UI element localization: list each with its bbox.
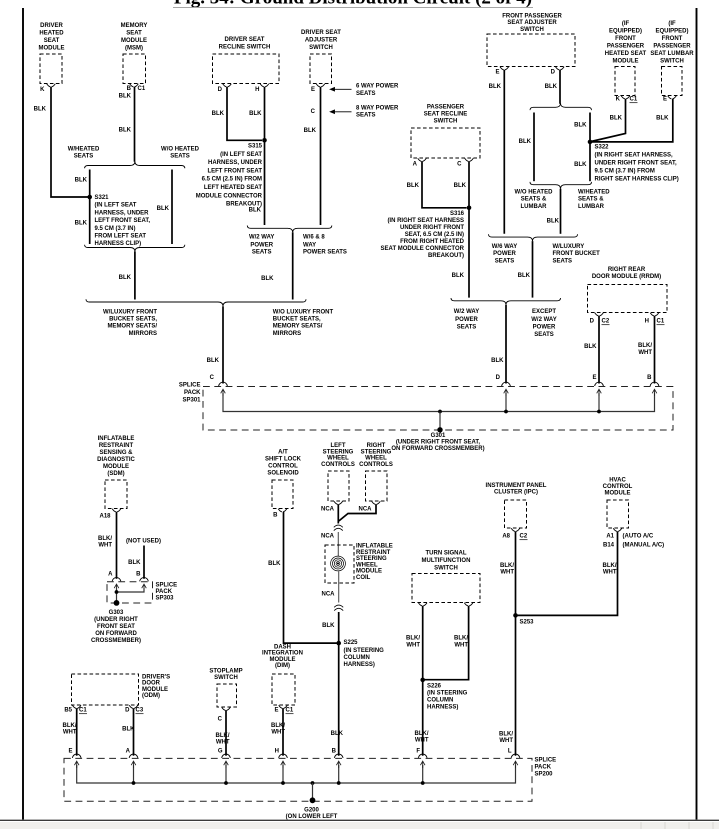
svg-text:SP301: SP301 bbox=[182, 398, 201, 404]
connector RRDM right bbox=[650, 313, 659, 316]
junction on bus at E bbox=[597, 410, 601, 414]
inline connector above coil bbox=[334, 525, 343, 531]
svg-text:E: E bbox=[274, 708, 278, 714]
svg-text:(ON LOWER LEFT: (ON LOWER LEFT bbox=[286, 814, 338, 820]
svg-text:MODULE: MODULE bbox=[39, 46, 65, 52]
SP200 arrow E bbox=[74, 761, 79, 768]
SP200 arrow L bbox=[513, 761, 518, 768]
junction on bus at A bbox=[132, 781, 136, 785]
svg-text:S315: S315 bbox=[248, 144, 263, 150]
svg-text:W/LUXURY FRONT: W/LUXURY FRONT bbox=[103, 310, 157, 316]
svg-text:C1: C1 bbox=[657, 319, 665, 325]
wire: W/HEATED branch through S322 bbox=[589, 113, 591, 182]
svg-text:BLK/: BLK/ bbox=[98, 536, 112, 542]
svg-text:MULTIFUNCTION: MULTIFUNCTION bbox=[422, 558, 471, 564]
svg-text:MODULE: MODULE bbox=[356, 569, 382, 575]
label W/6 WAY POWER SEATS bbox=[492, 244, 517, 264]
svg-text:BLK: BLK bbox=[574, 123, 587, 129]
svg-text:SEAT LUMBAR: SEAT LUMBAR bbox=[650, 51, 694, 57]
svg-text:SP303: SP303 bbox=[156, 595, 175, 601]
svg-text:WHT: WHT bbox=[454, 643, 468, 649]
label S316 note bbox=[381, 211, 465, 259]
wire: passenger merged to SP301 pin D (BLK) bbox=[505, 305, 507, 384]
svg-text:RIGHT REAR: RIGHT REAR bbox=[608, 267, 646, 273]
svg-text:MODULE: MODULE bbox=[270, 657, 296, 663]
svg-text:HARNESS, UNDER: HARNESS, UNDER bbox=[208, 160, 263, 166]
brace merge B7 (closing) bbox=[489, 234, 578, 241]
svg-text:BLK: BLK bbox=[454, 183, 467, 189]
svg-text:BLK/: BLK/ bbox=[415, 731, 429, 737]
svg-text:INFLATABLE: INFLATABLE bbox=[356, 544, 393, 550]
SP200 arrow F bbox=[420, 761, 425, 768]
wire: pass recline C through S316 to brace (BLK) bbox=[468, 161, 470, 297]
svg-text:E: E bbox=[68, 749, 72, 755]
svg-text:C1: C1 bbox=[630, 97, 638, 103]
svg-text:WHT: WHT bbox=[500, 570, 514, 576]
svg-text:E: E bbox=[495, 70, 499, 76]
svg-text:MODULE: MODULE bbox=[103, 464, 129, 470]
brace merge B6 (closing) bbox=[530, 182, 592, 189]
label G200 note bbox=[286, 808, 338, 821]
module: INFLATABLE RESTRAINT STEERING WHEEL MODULE COIL box bbox=[325, 545, 354, 583]
module: HVAC CONTROL MODULE label bbox=[603, 478, 633, 497]
splice pack SP301 box bbox=[203, 387, 673, 431]
svg-text:W/HEATED: W/HEATED bbox=[578, 190, 610, 196]
svg-text:SEATS: SEATS bbox=[170, 154, 190, 160]
svg-text:SEAT ADJUSTER: SEAT ADJUSTER bbox=[507, 20, 557, 26]
svg-text:H: H bbox=[275, 749, 279, 755]
wire: turn signal right to S226 (BLK/WHT) bbox=[425, 606, 469, 680]
svg-text:(MSM): (MSM) bbox=[125, 46, 143, 52]
svg-text:RESTRAINT: RESTRAINT bbox=[356, 550, 391, 556]
svg-text:WHEEL: WHEEL bbox=[365, 456, 387, 462]
svg-text:MEMORY SEATS/: MEMORY SEATS/ bbox=[273, 324, 323, 330]
module: TURN SIGNAL MULTIFUNCTION SWITCH label bbox=[422, 551, 471, 572]
svg-text:WHEEL: WHEEL bbox=[327, 456, 349, 462]
wire: heated-lumbar merged (BLK) bbox=[560, 189, 562, 234]
svg-text:DOOR MODULE (RRDM): DOOR MODULE (RRDM) bbox=[592, 274, 661, 280]
svg-text:NCA: NCA bbox=[321, 507, 335, 513]
svg-text:(SDM): (SDM) bbox=[107, 471, 124, 477]
SP303 internal bus bbox=[117, 588, 145, 592]
svg-text:(UNDER RIGHT FRONT SEAT,: (UNDER RIGHT FRONT SEAT, bbox=[396, 440, 481, 446]
svg-text:WHT: WHT bbox=[406, 643, 420, 649]
label BLK/WHT bbox=[638, 343, 652, 356]
label S322 note bbox=[595, 145, 679, 183]
connector at SP200 pin E bbox=[72, 754, 81, 758]
svg-text:FRONT SEAT: FRONT SEAT bbox=[97, 624, 135, 630]
svg-text:EQUIPPED): EQUIPPED) bbox=[655, 29, 688, 35]
label W/6 and 8 WAY POWER SEATS bbox=[303, 235, 347, 256]
connector pin H bbox=[260, 84, 269, 87]
SP303 internal drop bbox=[116, 588, 118, 603]
svg-text:WHT: WHT bbox=[499, 738, 513, 744]
svg-text:A1: A1 bbox=[606, 534, 614, 540]
label W/HEATED SEATS bbox=[68, 147, 100, 160]
brace merge B3 (closing) bbox=[247, 226, 331, 233]
module: TURN SIGNAL MULTIFUNCTION SWITCH box bbox=[412, 574, 480, 603]
svg-text:INFLATABLE: INFLATABLE bbox=[98, 436, 135, 442]
svg-text:FRONT: FRONT bbox=[662, 36, 683, 42]
svg-text:B: B bbox=[127, 86, 132, 92]
svg-text:D: D bbox=[590, 319, 595, 325]
svg-text:BLK/: BLK/ bbox=[271, 723, 285, 729]
svg-text:LUMBAR: LUMBAR bbox=[521, 204, 548, 210]
svg-text:WAY: WAY bbox=[303, 242, 316, 248]
svg-text:WHT: WHT bbox=[638, 350, 652, 356]
junction S225 bbox=[336, 641, 341, 646]
svg-text:BUCKET SEATS,: BUCKET SEATS, bbox=[109, 317, 157, 323]
svg-text:L: L bbox=[508, 749, 512, 755]
svg-text:(NOT USED): (NOT USED) bbox=[126, 539, 161, 545]
svg-text:SEATS: SEATS bbox=[553, 258, 573, 264]
module: DRIVER HEATED SEAT MODULE box bbox=[40, 54, 62, 84]
svg-text:BLK/: BLK/ bbox=[216, 733, 230, 739]
svg-text:BLK: BLK bbox=[518, 273, 531, 279]
bottom gray status bar bbox=[0, 822, 719, 829]
annotation arrow 8 WAY bbox=[330, 110, 351, 113]
connector pin E bbox=[500, 67, 509, 70]
svg-text:9.5 CM (3.7 IN): 9.5 CM (3.7 IN) bbox=[95, 226, 136, 232]
module: LEFT STEERING WHEEL CONTROLS box bbox=[328, 471, 349, 501]
SP303 arrow A bbox=[114, 584, 119, 591]
svg-text:WHEEL: WHEEL bbox=[356, 562, 378, 568]
connector at SDM bbox=[112, 509, 121, 512]
svg-text:SENSING &: SENSING & bbox=[99, 450, 133, 456]
coil symbol (concentric rings) bbox=[331, 556, 346, 571]
module: A/T SHIFT LOCK box bbox=[272, 480, 293, 509]
svg-text:SEATS: SEATS bbox=[356, 112, 376, 118]
svg-text:WHT: WHT bbox=[603, 570, 617, 576]
connector at right controls bbox=[372, 501, 381, 504]
svg-text:FRONT: FRONT bbox=[615, 36, 636, 42]
svg-text:COIL: COIL bbox=[356, 575, 371, 581]
svg-text:G301: G301 bbox=[431, 433, 446, 439]
svg-text:W/HEATED: W/HEATED bbox=[68, 147, 100, 153]
wire: G301 tap bbox=[439, 412, 441, 430]
svg-text:(IF: (IF bbox=[622, 21, 630, 27]
svg-text:INSTRUMENT PANEL: INSTRUMENT PANEL bbox=[486, 483, 547, 489]
svg-text:WHT: WHT bbox=[415, 737, 429, 743]
svg-text:D: D bbox=[551, 70, 556, 76]
wire: right controls NCA joining bbox=[339, 504, 376, 521]
wire: heated seat module to S322 (BLK) bbox=[591, 99, 626, 142]
svg-text:S253: S253 bbox=[520, 620, 535, 626]
svg-text:H: H bbox=[255, 87, 259, 93]
svg-text:ON FORWARD: ON FORWARD bbox=[95, 631, 137, 637]
module: DRIVER HEATED SEAT MODULE label bbox=[39, 23, 65, 52]
svg-text:MODULE: MODULE bbox=[605, 491, 631, 497]
wire: RRDM D to SP301 pin E (BLK) bbox=[598, 316, 600, 384]
wire: recline D to S315 (BLK) bbox=[227, 87, 262, 141]
module: DRIVER SEAT ADJUSTER SWITCH box bbox=[310, 54, 332, 84]
svg-text:HARNESS, UNDER: HARNESS, UNDER bbox=[95, 210, 150, 216]
svg-text:SEAT: SEAT bbox=[126, 31, 142, 37]
wire: W/O HEATED branch bbox=[171, 170, 173, 245]
ground G301 dot bbox=[437, 427, 442, 432]
svg-text:EQUIPPED): EQUIPPED) bbox=[609, 29, 642, 35]
svg-text:SWITCH: SWITCH bbox=[434, 566, 458, 572]
label 6 WAY POWER SEATS bbox=[356, 84, 399, 97]
junction S226 bbox=[420, 678, 425, 683]
svg-text:A/T: A/T bbox=[278, 450, 288, 456]
connector at SP200 pin G bbox=[222, 754, 231, 758]
svg-text:(IN LEFT SEAT: (IN LEFT SEAT bbox=[95, 203, 137, 209]
svg-text:BLK: BLK bbox=[407, 183, 420, 189]
connector at DIM bbox=[279, 705, 288, 708]
svg-text:POWER: POWER bbox=[493, 251, 516, 257]
svg-text:BLK: BLK bbox=[249, 111, 262, 117]
svg-text:BLK: BLK bbox=[584, 344, 597, 350]
module: INSTRUMENT PANEL CLUSTER label bbox=[486, 483, 547, 495]
svg-text:(DIM): (DIM) bbox=[275, 663, 290, 669]
SP303 arrow B bbox=[142, 584, 147, 591]
wire: W/O HEATED branch bbox=[533, 113, 535, 182]
svg-text:SPLICE: SPLICE bbox=[535, 758, 557, 764]
inline connector below coil bbox=[334, 605, 343, 611]
svg-text:(IN STEERING: (IN STEERING bbox=[344, 648, 385, 654]
wire: adjuster E to brace B7 (BLK) bbox=[503, 70, 505, 234]
svg-text:BLK: BLK bbox=[268, 561, 281, 567]
svg-text:WHT: WHT bbox=[63, 730, 77, 736]
svg-text:C: C bbox=[457, 162, 462, 168]
svg-text:G303: G303 bbox=[109, 610, 124, 616]
wire: W/HEATED branch bbox=[89, 170, 91, 245]
wire: SDM A18 to SP303 pin A (BLK/WHT) bbox=[116, 512, 118, 579]
svg-text:POWER SEATS: POWER SEATS bbox=[303, 250, 347, 256]
svg-text:D: D bbox=[496, 375, 501, 381]
junction G200 tap on bus bbox=[311, 781, 315, 785]
brace merge B4 (closing, left group) bbox=[86, 299, 306, 306]
svg-text:FRONT PASSENGER: FRONT PASSENGER bbox=[502, 13, 562, 19]
svg-text:BLK: BLK bbox=[75, 178, 88, 184]
label 8 WAY POWER SEATS bbox=[356, 105, 399, 118]
SP200 riser A bbox=[133, 765, 135, 783]
svg-text:SPLICE: SPLICE bbox=[156, 582, 178, 588]
label S226 note bbox=[427, 683, 468, 710]
wire: NCA to coil (thin) bbox=[337, 532, 339, 557]
svg-text:CLUSTER (IPC): CLUSTER (IPC) bbox=[494, 489, 538, 495]
svg-text:SEATS &: SEATS & bbox=[521, 197, 547, 203]
SP200 arrow G bbox=[224, 761, 229, 768]
svg-text:S225: S225 bbox=[344, 640, 359, 646]
bottom rule bbox=[0, 819, 719, 821]
svg-text:BLK: BLK bbox=[491, 358, 504, 364]
svg-text:UNDER RIGHT FRONT SEAT,: UNDER RIGHT FRONT SEAT, bbox=[595, 161, 678, 167]
module: PASSENGER SEAT RECLINE SWITCH box bbox=[411, 128, 480, 158]
svg-text:K: K bbox=[40, 87, 45, 93]
svg-text:FROM RIGHT HEATED: FROM RIGHT HEATED bbox=[400, 239, 465, 245]
module: INSTRUMENT PANEL CLUSTER box bbox=[505, 500, 527, 528]
svg-text:POWER: POWER bbox=[455, 317, 478, 323]
SP200 arrow B bbox=[336, 761, 341, 768]
SP301 arrow B bbox=[652, 389, 657, 396]
wire: G200 tap bbox=[312, 783, 314, 800]
svg-text:W/O LUXURY FRONT: W/O LUXURY FRONT bbox=[273, 310, 334, 316]
svg-text:FRONT BUCKET: FRONT BUCKET bbox=[553, 251, 601, 257]
svg-text:B: B bbox=[647, 375, 652, 381]
wire: recline H through S315 to brace (BLK) bbox=[264, 87, 266, 225]
svg-text:A: A bbox=[126, 749, 131, 755]
junction G301 tap on bus bbox=[438, 410, 442, 414]
svg-text:DRIVER'S: DRIVER'S bbox=[142, 675, 170, 681]
module: IF EQUIPPED FRONT PASSENGER SEAT LUMBAR SWITCH box bbox=[662, 67, 683, 96]
svg-text:9.5 CM (3.7 IN) FROM: 9.5 CM (3.7 IN) FROM bbox=[595, 169, 655, 175]
svg-text:BLK: BLK bbox=[519, 139, 532, 145]
svg-text:HARNESS CLIP): HARNESS CLIP) bbox=[95, 241, 142, 247]
wire: adjuster E to brace (BLK) bbox=[320, 87, 322, 225]
junction inside SP303 bbox=[115, 590, 119, 594]
label BLK/WHT bbox=[500, 563, 514, 576]
module: DRIVER SEAT RECLINE SWITCH box bbox=[213, 54, 280, 84]
SP301 arrow D bbox=[504, 389, 509, 396]
label S225 note bbox=[344, 640, 385, 668]
svg-text:BLK/: BLK/ bbox=[63, 723, 77, 729]
svg-text:INTEGRATION: INTEGRATION bbox=[262, 651, 303, 657]
junction S316 bbox=[467, 206, 472, 211]
connector at left controls bbox=[334, 501, 343, 504]
junction S253 bbox=[513, 613, 518, 618]
svg-text:W/O HEATED: W/O HEATED bbox=[161, 147, 200, 153]
label W/LUXURY FRONT BUCKET SEATS MEMORY SEATS/MIRRORS bbox=[103, 310, 157, 337]
SP301 riser D bbox=[505, 393, 507, 412]
wire: turn signal left through S226 to SP200 pin F (BLK/WHT) bbox=[422, 606, 424, 756]
svg-text:SWITCH: SWITCH bbox=[309, 45, 333, 51]
svg-text:SWITCH: SWITCH bbox=[660, 59, 684, 65]
SP301 internal bus bbox=[223, 393, 655, 412]
svg-text:ON FORWARD CROSSMEMBER): ON FORWARD CROSSMEMBER) bbox=[391, 446, 484, 452]
svg-text:BLK: BLK bbox=[452, 273, 465, 279]
svg-text:BLK: BLK bbox=[322, 623, 335, 629]
wire: MSM to brace (BLK) bbox=[134, 87, 136, 162]
label S321 note bbox=[95, 195, 151, 247]
svg-text:SPLICE: SPLICE bbox=[179, 383, 201, 389]
svg-text:STEERING: STEERING bbox=[356, 556, 387, 562]
svg-text:PASSENGER: PASSENGER bbox=[427, 105, 465, 111]
module: PASSENGER SEAT RECLINE SWITCH label bbox=[424, 105, 468, 125]
svg-text:BLK/: BLK/ bbox=[603, 563, 617, 569]
svg-text:POWER: POWER bbox=[250, 242, 273, 248]
svg-text:HEATED SEAT: HEATED SEAT bbox=[605, 51, 647, 57]
connector pin D bbox=[556, 67, 565, 70]
svg-text:SEATS &: SEATS & bbox=[578, 197, 604, 203]
label BLK/WHT lower bbox=[499, 731, 513, 744]
svg-text:C1: C1 bbox=[79, 708, 87, 714]
svg-text:HEATED: HEATED bbox=[39, 31, 64, 37]
svg-text:MODULE: MODULE bbox=[613, 59, 639, 65]
svg-text:LEFT FRONT SEAT: LEFT FRONT SEAT bbox=[207, 168, 262, 174]
SP200 internal bus bbox=[77, 765, 516, 783]
label EXCEPT W/2 WAY POWER SEATS bbox=[531, 309, 556, 338]
svg-text:BLK: BLK bbox=[75, 221, 88, 227]
connector at stoplamp bbox=[222, 707, 231, 710]
module: STOPLAMP SWITCH label bbox=[209, 669, 242, 682]
annotation arrow 6 WAY bbox=[330, 88, 351, 91]
svg-text:CONTROLS: CONTROLS bbox=[321, 462, 355, 468]
svg-text:D: D bbox=[218, 87, 223, 93]
junction S322 bbox=[588, 140, 593, 145]
connector at A/T solenoid bbox=[278, 509, 287, 512]
svg-text:STOPLAMP: STOPLAMP bbox=[209, 669, 242, 675]
module: RIGHT STEERING WHEEL CONTROLS label bbox=[359, 443, 393, 468]
svg-text:PACK: PACK bbox=[156, 589, 173, 595]
svg-text:ADJUSTER: ADJUSTER bbox=[305, 38, 338, 44]
label BLK/WHT bbox=[216, 733, 230, 746]
svg-text:WHT: WHT bbox=[98, 542, 112, 548]
wire: ODM D to SP200 pin A (BLK) bbox=[133, 708, 135, 756]
svg-text:C2: C2 bbox=[602, 319, 610, 325]
wire: DIM E to SP200 pin H (BLK/WHT) bbox=[282, 708, 284, 756]
svg-text:FROM LEFT SEAT: FROM LEFT SEAT bbox=[95, 234, 147, 240]
label BLK/WHT bbox=[271, 723, 285, 736]
svg-text:WHT: WHT bbox=[271, 730, 285, 736]
label W/O LUXURY FRONT BUCKET SEATS MEMORY SEATS/MIRRORS bbox=[273, 310, 334, 337]
svg-text:(IN LEFT SEAT: (IN LEFT SEAT bbox=[220, 152, 262, 158]
svg-text:BLK/: BLK/ bbox=[500, 563, 514, 569]
svg-text:CONTROL: CONTROL bbox=[603, 484, 633, 490]
connector at SP301 pin B bbox=[650, 382, 659, 386]
label G303 note bbox=[91, 610, 141, 644]
wire: stoplamp C to SP200 pin G (BLK/WHT) bbox=[225, 710, 227, 756]
wire: driver power seats merged (BLK) bbox=[292, 232, 294, 299]
svg-text:C2: C2 bbox=[520, 534, 528, 540]
connector right bbox=[464, 603, 473, 606]
svg-text:SEATS: SEATS bbox=[495, 258, 515, 264]
svg-text:BLK: BLK bbox=[574, 162, 587, 168]
wire: connector to S225 and SP200 pin B (BLK) bbox=[338, 612, 340, 756]
label W/O HEATED SEATS bbox=[161, 147, 200, 160]
junction on bus at H bbox=[281, 781, 285, 785]
svg-text:B14: B14 bbox=[603, 542, 615, 548]
svg-text:BLK: BLK bbox=[249, 208, 262, 214]
brace merge B2 (closing) bbox=[85, 245, 185, 252]
svg-text:DRIVER: DRIVER bbox=[40, 23, 63, 29]
label W/HEATED SEATS and LUMBAR bbox=[578, 190, 610, 210]
module: RIGHT REAR DOOR MODULE label bbox=[592, 267, 661, 280]
svg-text:F: F bbox=[416, 749, 420, 755]
svg-text:C: C bbox=[311, 109, 316, 115]
svg-text:BLK: BLK bbox=[119, 94, 132, 100]
svg-text:SWITCH: SWITCH bbox=[434, 119, 458, 125]
svg-text:LEFT: LEFT bbox=[331, 443, 346, 449]
label BLK/WHT left bbox=[406, 636, 420, 649]
svg-text:BLK: BLK bbox=[207, 358, 220, 364]
svg-text:BLK: BLK bbox=[128, 560, 141, 566]
svg-text:B: B bbox=[136, 572, 141, 578]
svg-text:SEATS: SEATS bbox=[252, 250, 272, 256]
svg-text:MODULE CONNECTOR: MODULE CONNECTOR bbox=[196, 193, 263, 199]
svg-text:WHT: WHT bbox=[216, 740, 230, 746]
svg-text:D: D bbox=[125, 708, 130, 714]
module: STOPLAMP SWITCH box bbox=[217, 684, 237, 707]
svg-text:BLK: BLK bbox=[547, 219, 560, 225]
svg-text:HARNESS): HARNESS) bbox=[344, 662, 375, 668]
SP200 riser B bbox=[338, 765, 340, 783]
connector at heated seat module bbox=[621, 96, 630, 99]
wire: RRDM H to SP301 pin B (BLK/WHT) bbox=[654, 316, 656, 384]
status bar separators bbox=[640, 822, 642, 829]
connector at MSM bbox=[130, 84, 139, 87]
svg-text:G: G bbox=[218, 749, 223, 755]
svg-text:SWITCH: SWITCH bbox=[214, 675, 238, 681]
svg-text:LEFT HEATED SEAT: LEFT HEATED SEAT bbox=[204, 185, 262, 191]
svg-text:POWER: POWER bbox=[533, 324, 556, 330]
SP301 arrow E bbox=[597, 389, 602, 396]
module: FRONT PASSENGER SEAT ADJUSTER SWITCH label bbox=[502, 13, 562, 33]
wire: not used branch to SP303 pin B (BLK) bbox=[143, 546, 145, 579]
svg-text:S226: S226 bbox=[427, 683, 442, 689]
svg-text:MIRRORS: MIRRORS bbox=[273, 331, 301, 337]
